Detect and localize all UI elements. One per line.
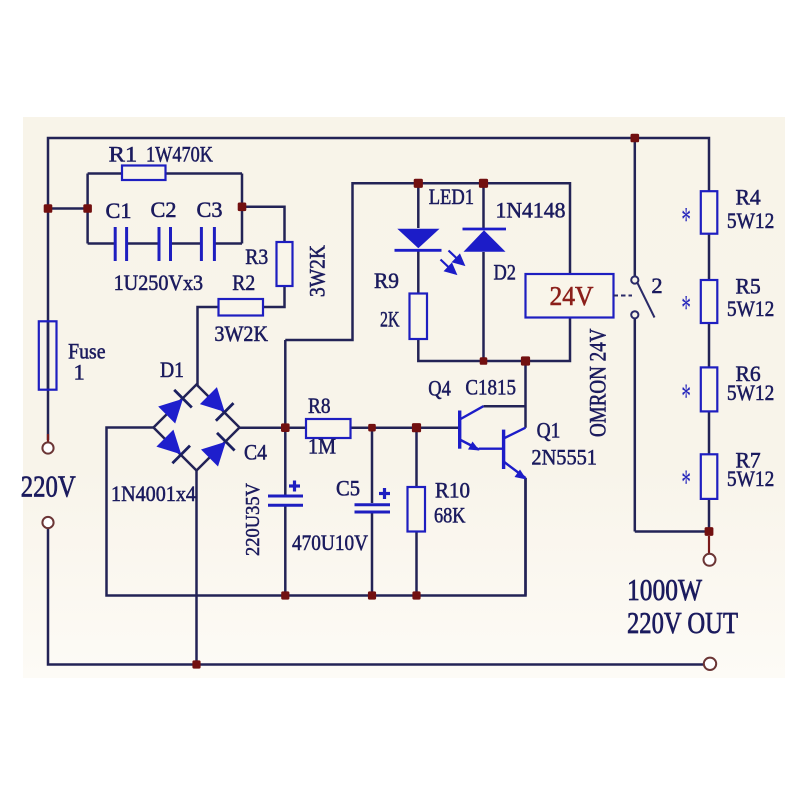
svg-text:1W470K: 1W470K: [146, 142, 214, 167]
svg-text:C1: C1: [106, 198, 132, 223]
svg-text:24V: 24V: [550, 281, 594, 311]
svg-text:D2: D2: [494, 260, 517, 285]
svg-text:R3: R3: [245, 244, 268, 269]
svg-text:Q1: Q1: [537, 418, 561, 443]
svg-text:2N5551: 2N5551: [531, 445, 597, 470]
svg-text:Q4: Q4: [428, 376, 451, 401]
svg-text:C4: C4: [244, 440, 267, 465]
svg-text:D1: D1: [160, 357, 184, 382]
svg-text:R10: R10: [435, 478, 470, 503]
svg-text:220V OUT: 220V OUT: [627, 605, 738, 640]
svg-text:5W12: 5W12: [727, 466, 774, 491]
svg-text:R2: R2: [232, 270, 255, 295]
svg-text:1M: 1M: [308, 434, 336, 459]
svg-text:LED1: LED1: [429, 184, 474, 209]
svg-text:*: *: [681, 462, 691, 502]
svg-text:5W12: 5W12: [727, 296, 774, 321]
svg-text:R9: R9: [374, 268, 399, 293]
svg-text:C1815: C1815: [465, 375, 516, 400]
svg-text:1N4001x4: 1N4001x4: [111, 481, 196, 506]
svg-text:C3: C3: [197, 197, 223, 222]
svg-text:3W2K: 3W2K: [305, 244, 330, 297]
svg-text:1U250Vx3: 1U250Vx3: [114, 270, 204, 295]
svg-text:C5: C5: [336, 476, 360, 501]
svg-text:1: 1: [74, 360, 85, 385]
svg-text:1000W: 1000W: [627, 572, 703, 607]
svg-text:5W12: 5W12: [727, 380, 774, 405]
svg-text:R8: R8: [308, 393, 331, 418]
svg-text:*: *: [681, 199, 691, 239]
svg-text:68K: 68K: [434, 503, 466, 528]
svg-text:R5: R5: [736, 274, 761, 299]
svg-text:2: 2: [651, 273, 662, 298]
svg-text:3W2K: 3W2K: [214, 321, 268, 346]
svg-text:C2: C2: [151, 197, 177, 222]
svg-text:R1: R1: [109, 142, 138, 167]
svg-text:OMRON 24V: OMRON 24V: [586, 328, 611, 437]
svg-text:1N4148: 1N4148: [496, 198, 566, 223]
svg-text:220V: 220V: [21, 469, 76, 504]
svg-text:470U10V: 470U10V: [292, 530, 368, 555]
svg-text:*: *: [681, 288, 691, 328]
svg-text:R4: R4: [736, 185, 761, 210]
svg-text:*: *: [681, 376, 691, 416]
svg-text:2K: 2K: [380, 307, 400, 332]
svg-text:220U35V: 220U35V: [242, 483, 264, 556]
svg-text:5W12: 5W12: [727, 208, 774, 233]
